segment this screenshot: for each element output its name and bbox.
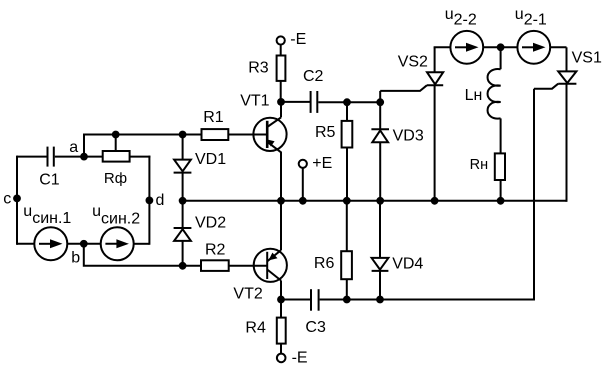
wire source1 to node b xyxy=(67,243,101,245)
capacitor C1 xyxy=(48,147,54,167)
wire R3 to collector node xyxy=(280,81,282,103)
transistor VT1 xyxy=(253,117,286,152)
wire collector node to C2 xyxy=(281,101,310,103)
wire left-loop top xyxy=(17,156,47,158)
resistor R5 xyxy=(342,102,353,201)
node VS2 rail xyxy=(431,197,439,205)
diode VD3 xyxy=(371,102,389,201)
svg-text:C3: C3 xyxy=(305,319,326,336)
wire Rн to rail xyxy=(500,180,502,201)
wire node a up xyxy=(83,134,85,158)
resistor R2 xyxy=(201,260,229,271)
terminal -E top xyxy=(277,36,285,44)
transistor VT2 xyxy=(254,249,287,282)
resistor R6 xyxy=(341,201,352,300)
svg-text:R6: R6 xyxy=(314,255,335,272)
svg-text:VT1: VT1 xyxy=(240,93,269,110)
svg-text:R4: R4 xyxy=(245,319,266,336)
svg-text:R1: R1 xyxy=(203,109,224,126)
wire VT2 collector down xyxy=(280,281,282,300)
wire bottom rail left segment xyxy=(281,299,310,301)
wire +E to rail xyxy=(302,168,304,201)
source u2-2 xyxy=(450,31,483,64)
wire bottom rail right segment xyxy=(320,299,534,301)
wire left-loop left side xyxy=(16,156,18,245)
wire left-loop bottom to source 1 xyxy=(17,243,34,245)
wire Rф right to corner xyxy=(130,156,151,158)
terminal -E bottom xyxy=(277,354,286,363)
node VD4 bottom xyxy=(376,296,384,304)
resistor R4 xyxy=(277,318,286,344)
wire C1 to node a xyxy=(55,156,103,158)
source u2-1 xyxy=(517,31,550,64)
node VT1 collector xyxy=(277,98,285,106)
node +E rail xyxy=(299,197,307,205)
node c xyxy=(13,195,21,203)
wire u2-1 to VS1 xyxy=(550,46,566,48)
node emitter rail xyxy=(277,197,285,205)
node R6 bottom xyxy=(343,296,351,304)
capacitor C2 xyxy=(311,91,318,113)
node Rф tap xyxy=(112,131,120,139)
wire R4 branch xyxy=(280,300,282,318)
wire VT1 emitter down to rail xyxy=(280,152,282,201)
source u_син.2 xyxy=(101,227,134,260)
svg-text:VS2: VS2 xyxy=(398,53,428,70)
wire right side of loop through node d xyxy=(148,156,150,245)
wire top line a to R1 xyxy=(83,134,202,136)
svg-text:VD3: VD3 xyxy=(393,128,424,145)
node b xyxy=(80,240,88,248)
svg-text:-E: -E xyxy=(292,350,308,366)
svg-text:d: d xyxy=(156,192,165,209)
node VD3 rail xyxy=(376,197,384,205)
svg-text:C2: C2 xyxy=(303,68,324,85)
wire R4 to -E bottom xyxy=(280,344,282,354)
resistor R3 xyxy=(277,56,286,81)
svg-text:R5: R5 xyxy=(315,124,336,141)
node R5 rail xyxy=(343,197,351,205)
svg-text:Rн: Rн xyxy=(470,157,488,173)
inductor Lн xyxy=(488,47,501,153)
thyristor VS2 xyxy=(380,47,443,201)
svg-text:Lн: Lн xyxy=(465,87,483,104)
terminal +E xyxy=(299,160,307,168)
svg-text:C1: C1 xyxy=(39,172,60,189)
wire VS2 top to u2-2 xyxy=(434,46,451,48)
svg-text:a: a xyxy=(69,139,78,156)
capacitor C3 xyxy=(311,289,319,311)
resistor Rн xyxy=(495,153,505,180)
diode VD1 xyxy=(174,135,192,201)
node Rн rail xyxy=(497,197,505,205)
source u_син.1 xyxy=(34,227,67,260)
wire u2-2 to center node xyxy=(483,46,517,48)
node d xyxy=(146,197,154,205)
diode VD4 xyxy=(372,201,389,300)
svg-text:R3: R3 xyxy=(248,60,269,77)
node R5 top xyxy=(343,98,351,106)
node a xyxy=(80,153,88,161)
wire Rф tap xyxy=(115,135,117,152)
node VD1 bottom rail xyxy=(179,197,187,205)
svg-text:VD2: VD2 xyxy=(195,214,226,231)
svg-text:R2: R2 xyxy=(205,241,226,258)
wire node b down and right to R2 xyxy=(84,244,201,266)
wire VT1 collector up xyxy=(280,102,282,118)
svg-text:c: c xyxy=(3,190,11,207)
wire C2 to R5/VD3 xyxy=(318,101,380,103)
node VD2 bottom xyxy=(179,262,187,270)
svg-text:Rф: Rф xyxy=(104,170,127,187)
wire R1 to VT1 base xyxy=(228,134,267,136)
wire -E to R3 xyxy=(280,45,282,56)
svg-text:VT2: VT2 xyxy=(233,286,262,303)
svg-text:b: b xyxy=(71,249,80,266)
resistor R1 xyxy=(202,129,229,140)
node u2 center xyxy=(497,43,505,51)
resistor Rф xyxy=(103,151,130,162)
thyristor VS1 xyxy=(534,47,576,300)
wire middle rail xyxy=(183,200,567,202)
svg-text:VS1: VS1 xyxy=(572,49,602,66)
svg-text:-E: -E xyxy=(290,31,306,48)
diode VD2 xyxy=(174,201,192,266)
wire VT2 emitter up to rail xyxy=(280,201,282,250)
wire R2 to VT2 base xyxy=(229,265,268,267)
node VT2 collector xyxy=(277,296,285,304)
svg-text:VD1: VD1 xyxy=(195,151,226,168)
node VD1 top xyxy=(179,131,187,139)
wire source2 to right corner xyxy=(134,243,150,245)
node VD3 top xyxy=(376,98,384,106)
svg-text:VD4: VD4 xyxy=(392,256,423,273)
svg-text:+E: +E xyxy=(312,155,332,172)
